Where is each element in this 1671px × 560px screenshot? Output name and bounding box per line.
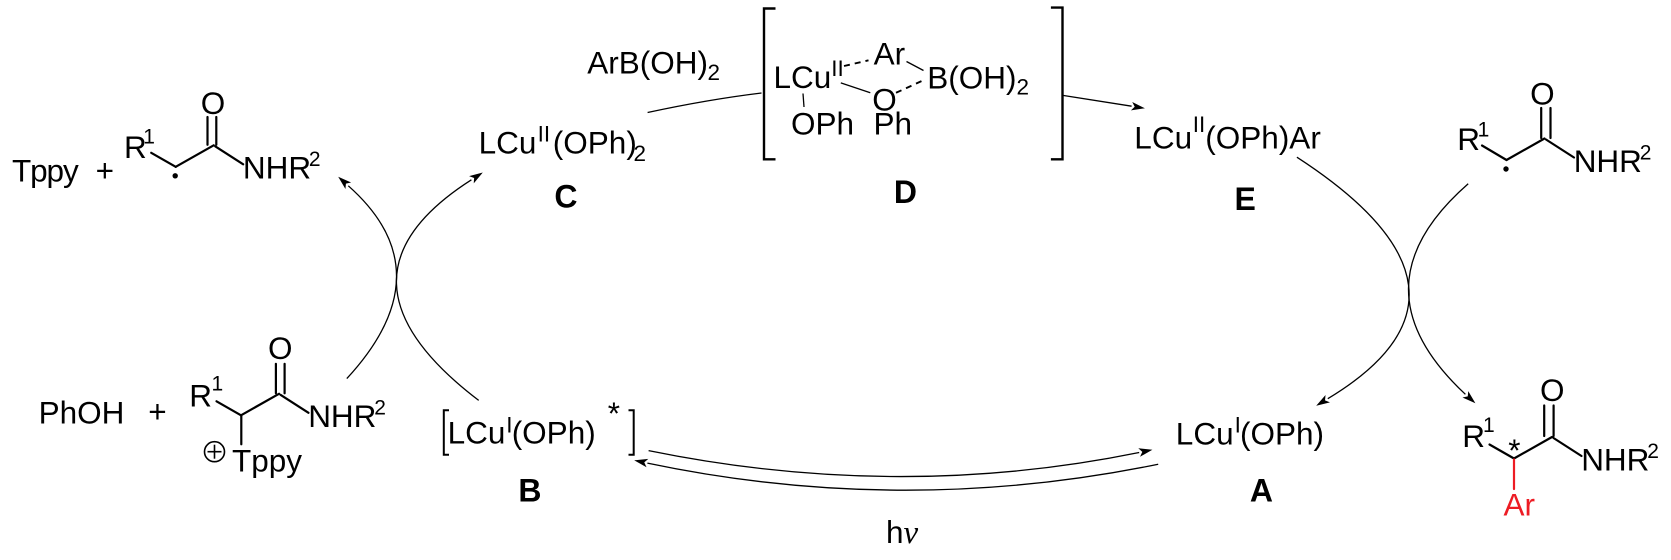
svg-text:O: O — [201, 85, 226, 121]
svg-text:LCu: LCu — [774, 59, 832, 95]
svg-text:2: 2 — [309, 148, 321, 171]
structure S1: amide radical top-left — [124, 85, 321, 186]
svg-text:(OPh)Ar: (OPh)Ar — [1205, 119, 1321, 155]
svg-text:PhOH: PhOH — [39, 395, 125, 431]
label A — [1250, 472, 1273, 508]
svg-text:2: 2 — [1647, 440, 1659, 463]
svg-text:NHR: NHR — [1581, 441, 1649, 477]
svg-text:Tppy: Tppy — [232, 442, 302, 478]
formula C: LCuII(OPh)2 — [479, 121, 646, 165]
svg-text:R: R — [189, 377, 212, 413]
bond Cu-OPh in D — [803, 94, 804, 108]
svg-text:1: 1 — [1478, 118, 1490, 141]
svg-text:B(OH): B(OH) — [927, 59, 1016, 95]
bond Ar-B — [907, 62, 924, 71]
svg-text:E: E — [1235, 181, 1256, 217]
structure S2: amide with Tppy adduct bottom-left — [189, 330, 386, 479]
svg-text:O: O — [268, 330, 293, 366]
svg-text:*: * — [608, 395, 620, 431]
text PhOH — [39, 395, 125, 431]
svg-text:NHR: NHR — [1574, 143, 1642, 179]
arrow D to E — [1063, 95, 1146, 112]
svg-text:1: 1 — [143, 126, 155, 149]
svg-text:hν: hν — [886, 514, 919, 551]
svg-text:B: B — [518, 472, 541, 508]
svg-text:II: II — [1193, 112, 1206, 137]
formula A: LCuI(OPh) — [1176, 413, 1324, 452]
svg-text:O: O — [1540, 372, 1565, 408]
bond Cu-O in D — [841, 83, 871, 93]
complex D: LCuII core — [774, 56, 844, 95]
svg-text:1: 1 — [212, 373, 224, 396]
arrow S3 to S4 (curved, crossing right) — [1408, 184, 1478, 407]
svg-text:+: + — [148, 393, 166, 429]
formula B: LCuI(OPh) star — [448, 413, 596, 451]
svg-text:II: II — [831, 56, 844, 81]
svg-text:D: D — [894, 174, 917, 210]
complex D bracket right — [1051, 8, 1063, 160]
svg-text:(OPh): (OPh) — [512, 414, 596, 450]
text h nu — [886, 514, 919, 551]
arrow S2 to S1 (curved, crossing left) — [335, 174, 396, 379]
svg-text:C: C — [554, 179, 577, 215]
arrow E to A (curved, crossing right) — [1297, 157, 1409, 409]
svg-text:Ar: Ar — [874, 36, 906, 72]
arrow C to D (arc) — [648, 93, 762, 113]
dashed bond O--B — [896, 80, 924, 93]
text OPh in D — [791, 106, 854, 142]
svg-text:(OPh): (OPh) — [553, 125, 637, 161]
svg-text:NHR: NHR — [308, 398, 376, 434]
svg-text:NHR: NHR — [243, 150, 311, 186]
equilibrium arrow bottom (A to B) — [633, 456, 1158, 490]
label E — [1235, 181, 1256, 217]
svg-text:R: R — [1457, 121, 1480, 157]
label C — [554, 179, 577, 215]
plus sign bottom-left — [148, 393, 166, 429]
equilibrium arrow top (B to A) — [649, 446, 1154, 477]
text ArB(OH)2 — [587, 44, 720, 85]
label B — [518, 472, 541, 508]
arrow B to C (curved, crossing left) — [396, 169, 485, 401]
svg-text:Ar: Ar — [1504, 487, 1536, 523]
complex D bracket left — [764, 9, 776, 160]
svg-text:LCu: LCu — [1176, 415, 1234, 451]
text O bridging in D — [872, 81, 897, 117]
structure S4: arylated amide product bottom-right — [1462, 372, 1659, 522]
svg-text:Tppy: Tppy — [12, 153, 79, 189]
svg-text:R: R — [1462, 418, 1485, 454]
svg-text:II: II — [538, 121, 551, 146]
svg-text:2: 2 — [1640, 141, 1652, 164]
complex B bracket right — [629, 410, 634, 455]
text Ar in D — [874, 36, 906, 72]
svg-text:2: 2 — [634, 141, 647, 166]
structure S3: amide radical top-right — [1457, 76, 1651, 179]
svg-text:2: 2 — [1017, 74, 1030, 99]
plus sign top-left — [96, 153, 114, 189]
svg-text:+: + — [96, 153, 114, 189]
label D — [894, 174, 917, 210]
svg-text:2: 2 — [708, 60, 721, 85]
svg-text:LCu: LCu — [1134, 119, 1192, 155]
formula E: LCuII(OPh)Ar — [1134, 112, 1321, 155]
svg-text:OPh: OPh — [791, 106, 854, 142]
svg-text:LCu: LCu — [479, 125, 537, 161]
svg-text:1: 1 — [1483, 414, 1495, 437]
complex B bracket left — [444, 410, 449, 455]
svg-text:(OPh): (OPh) — [1240, 415, 1324, 451]
text Ph in D — [874, 106, 913, 142]
text Tppy — [12, 153, 79, 189]
svg-text:LCu: LCu — [448, 414, 506, 450]
text B(OH)2 in D — [927, 59, 1029, 99]
svg-text:Ph: Ph — [874, 106, 913, 142]
dashed bond Cu--Ar — [844, 60, 869, 66]
svg-text:ArB(OH): ArB(OH) — [587, 44, 708, 80]
svg-text:2: 2 — [374, 397, 386, 420]
svg-text:O: O — [1530, 76, 1555, 112]
svg-text:A: A — [1250, 472, 1273, 508]
star of B — [608, 395, 620, 431]
